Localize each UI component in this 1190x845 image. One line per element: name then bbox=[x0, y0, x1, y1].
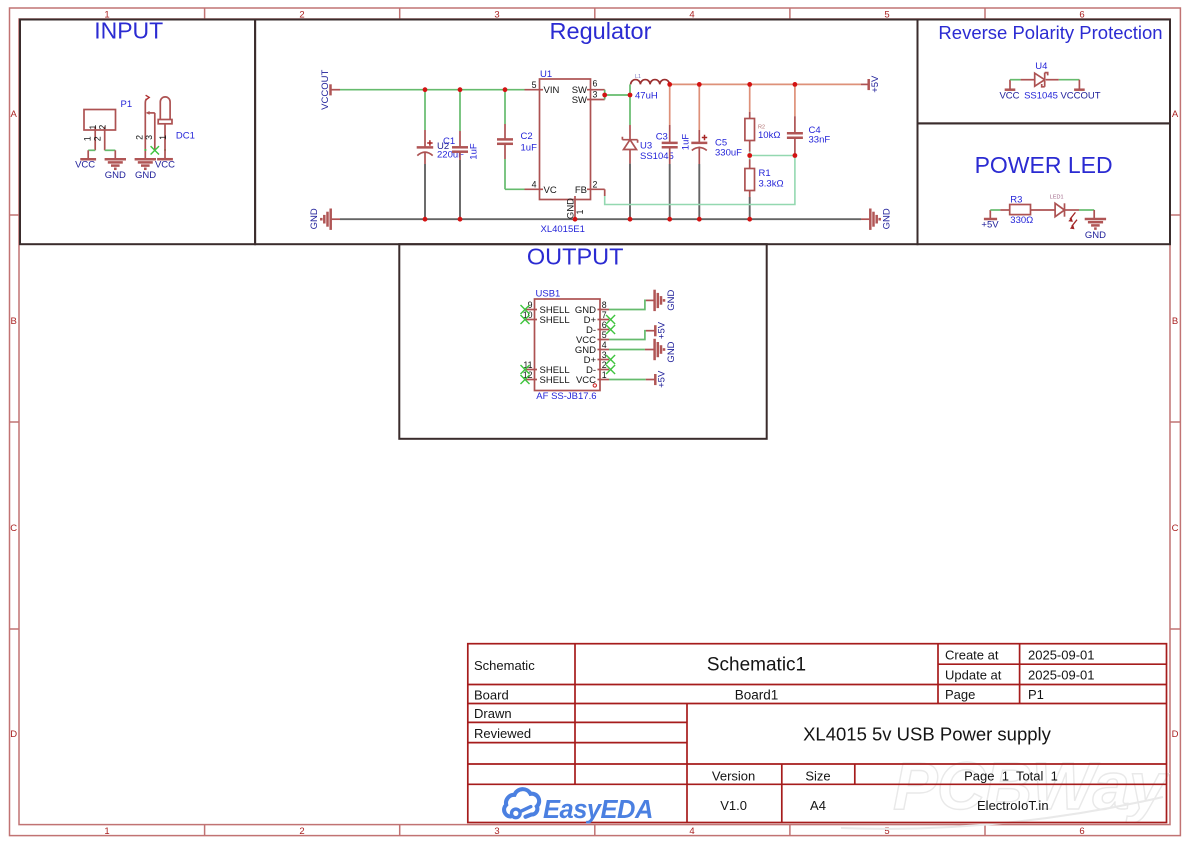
svg-text:POWER LED: POWER LED bbox=[975, 152, 1113, 178]
svg-text:R3: R3 bbox=[1010, 194, 1022, 205]
USB1 pin 3 D+ bbox=[584, 350, 609, 366]
USB1 pin 6 D- bbox=[586, 320, 609, 336]
resistor R3 330 bbox=[1010, 194, 1034, 226]
diode U3 SS1045 bbox=[622, 74, 673, 219]
svg-text:VCCOUT: VCCOUT bbox=[1060, 91, 1100, 102]
svg-text:4: 4 bbox=[532, 180, 537, 190]
svg-text:1: 1 bbox=[602, 370, 607, 380]
svg-text:1: 1 bbox=[88, 125, 98, 130]
svg-text:47uH: 47uH bbox=[635, 90, 658, 101]
svg-text:VIN: VIN bbox=[544, 85, 560, 96]
wire pin5 to +5V bbox=[609, 331, 655, 340]
svg-text:GND: GND bbox=[309, 208, 320, 229]
wire pin1 to +5V bbox=[609, 379, 655, 381]
svg-text:GND: GND bbox=[666, 290, 677, 311]
wire R3 to LED bbox=[1031, 209, 1056, 211]
port VCC left bbox=[999, 80, 1019, 102]
wire P1 pin1 to VCC bbox=[88, 149, 95, 151]
svg-text:INPUT: INPUT bbox=[94, 18, 163, 44]
svg-text:1uF: 1uF bbox=[468, 143, 479, 160]
capacitor C1 220uF bbox=[417, 90, 464, 220]
port +5V at pin1 bbox=[655, 370, 667, 388]
svg-text:C3: C3 bbox=[656, 132, 668, 143]
svg-text:A: A bbox=[1172, 109, 1179, 120]
svg-text:Page 1 Total 1: Page 1 Total 1 bbox=[964, 769, 1058, 784]
wire GND rail bbox=[340, 218, 861, 220]
svg-text:1: 1 bbox=[82, 136, 92, 141]
svg-text:Schematic: Schematic bbox=[474, 658, 535, 673]
POWER LED section box bbox=[918, 123, 1171, 244]
junction C1 top bbox=[423, 87, 428, 92]
svg-text:OUTPUT: OUTPUT bbox=[527, 244, 624, 270]
svg-text:GND: GND bbox=[566, 198, 577, 219]
svg-text:SHELL: SHELL bbox=[540, 375, 570, 386]
svg-text:P1: P1 bbox=[1028, 687, 1044, 702]
P1 pin 2 bbox=[92, 125, 107, 151]
svg-text:U1: U1 bbox=[540, 69, 552, 80]
svg-text:5: 5 bbox=[532, 80, 537, 90]
svg-text:GND: GND bbox=[882, 208, 893, 229]
svg-text:B: B bbox=[11, 316, 17, 327]
junction C3 gnd bbox=[667, 217, 672, 222]
svg-text:SS1045: SS1045 bbox=[1024, 91, 1058, 102]
svg-text:Create at: Create at bbox=[945, 648, 999, 663]
junction FB node C4 bbox=[793, 153, 798, 158]
svg-text:Update at: Update at bbox=[945, 668, 1002, 683]
svg-text:C: C bbox=[1172, 523, 1179, 534]
svg-text:GND: GND bbox=[666, 341, 677, 362]
port +5V right bbox=[861, 75, 881, 93]
connector P1 bbox=[84, 99, 132, 130]
USB1 pin 5 VCC bbox=[576, 330, 609, 346]
svg-text:C: C bbox=[10, 523, 17, 534]
svg-text:+5V: +5V bbox=[657, 321, 668, 339]
svg-text:SHELL: SHELL bbox=[540, 315, 570, 326]
svg-text:33nF: 33nF bbox=[809, 135, 831, 146]
svg-text:9: 9 bbox=[528, 300, 533, 310]
svg-text:3: 3 bbox=[593, 90, 598, 100]
svg-text:Regulator: Regulator bbox=[550, 18, 652, 44]
junction C2 top bbox=[503, 87, 508, 92]
VCC port under DC1 pin1 bbox=[155, 159, 175, 170]
junction C1 gnd bbox=[423, 217, 428, 222]
svg-text:B: B bbox=[1172, 316, 1178, 327]
svg-text:LED1: LED1 bbox=[1050, 195, 1064, 201]
LED LED1 bbox=[1050, 195, 1077, 230]
svg-text:+5V: +5V bbox=[981, 220, 999, 231]
svg-text:2025-09-01: 2025-09-01 bbox=[1028, 648, 1095, 663]
svg-text:A: A bbox=[11, 109, 18, 120]
wire VCCOUT rail bbox=[340, 89, 525, 91]
USB1 pin 11 SHELL bbox=[523, 360, 569, 376]
junction R2 top bbox=[747, 82, 752, 87]
ground GND under P1 bbox=[105, 150, 126, 181]
svg-text:Board1: Board1 bbox=[735, 688, 779, 703]
junction R1 gnd bbox=[747, 217, 752, 222]
column ticks top/bottom bbox=[205, 8, 985, 836]
P1 pin 1 bbox=[82, 125, 98, 151]
svg-text:FB: FB bbox=[575, 185, 587, 196]
svg-text:VCC: VCC bbox=[999, 91, 1019, 102]
capacitor C2 1uF bbox=[497, 90, 537, 190]
port +5V at pin5 bbox=[655, 321, 667, 339]
no-connect X marks USB right bbox=[606, 315, 615, 374]
svg-text:2: 2 bbox=[98, 125, 108, 130]
svg-text:3: 3 bbox=[494, 826, 499, 837]
svg-text:R1: R1 bbox=[759, 168, 771, 179]
capacitor C4 33nF bbox=[787, 84, 830, 155]
svg-text:L1: L1 bbox=[635, 74, 641, 80]
DC jack DC1 bbox=[135, 95, 195, 159]
USB1 pin 2 D- bbox=[586, 360, 609, 376]
wire pin4 to GND bbox=[609, 349, 654, 351]
svg-text:1: 1 bbox=[158, 135, 168, 140]
junction cap 1uF gnd bbox=[458, 217, 463, 222]
PCBWay watermark bbox=[841, 749, 1170, 829]
svg-text:3: 3 bbox=[144, 135, 154, 140]
VCC port under P1 bbox=[75, 150, 96, 170]
svg-text:U4: U4 bbox=[1035, 61, 1047, 72]
OUTPUT section box bbox=[399, 244, 766, 439]
svg-text:VCC: VCC bbox=[155, 160, 175, 171]
ground GND left bbox=[309, 208, 340, 230]
capacitor C3 1uF bbox=[656, 84, 692, 219]
svg-text:6: 6 bbox=[602, 320, 607, 330]
svg-text:Schematic1: Schematic1 bbox=[707, 655, 806, 676]
svg-text:6: 6 bbox=[593, 79, 598, 89]
capacitor C5 330uF bbox=[691, 84, 742, 219]
svg-text:1: 1 bbox=[104, 826, 109, 837]
wire +5V rail bbox=[670, 83, 862, 85]
svg-text:VCC: VCC bbox=[75, 160, 95, 171]
svg-text:XL4015 5v USB Power supply: XL4015 5v USB Power supply bbox=[803, 724, 1052, 745]
svg-text:GND: GND bbox=[105, 170, 126, 181]
USB1 pin 10 SHELL bbox=[523, 310, 570, 326]
svg-text:Reverse Polarity Protection: Reverse Polarity Protection bbox=[938, 22, 1162, 43]
row letters bbox=[10, 109, 1179, 740]
svg-text:1uF: 1uF bbox=[680, 134, 691, 151]
svg-text:+5V: +5V bbox=[657, 370, 668, 388]
Reverse Polarity Protection section box bbox=[918, 20, 1171, 124]
title block table lines bbox=[468, 644, 1167, 823]
svg-text:C2: C2 bbox=[521, 131, 533, 142]
svg-text:5: 5 bbox=[884, 826, 889, 837]
IC U1 XL4015E1 bbox=[525, 69, 605, 235]
diode U4 SS1045 bbox=[1024, 61, 1058, 102]
junction C3 top bbox=[667, 82, 672, 87]
no-connect X on DC1 pin 3 bbox=[151, 146, 159, 154]
Regulator section box bbox=[255, 18, 917, 244]
svg-text:EasyEDA: EasyEDA bbox=[543, 796, 653, 824]
junction C5 top bbox=[697, 82, 702, 87]
USB1 pin 8 GND bbox=[575, 300, 609, 316]
svg-text:P1: P1 bbox=[121, 99, 133, 110]
USB1 pin 9 SHELL bbox=[526, 300, 570, 316]
svg-text:+5V: +5V bbox=[870, 75, 881, 93]
ground GND under DC1 pin2 bbox=[135, 159, 157, 181]
svg-text:10kΩ: 10kΩ bbox=[758, 130, 780, 141]
svg-text:U3: U3 bbox=[640, 141, 652, 152]
ground GND right bbox=[861, 208, 893, 230]
USB1 pin 4 GND bbox=[575, 340, 609, 356]
svg-text:2: 2 bbox=[92, 136, 102, 141]
junction U3 gnd bbox=[628, 217, 633, 222]
junction cap 1uF top bbox=[458, 87, 463, 92]
svg-text:3.3kΩ: 3.3kΩ bbox=[759, 179, 784, 190]
svg-text:DC1: DC1 bbox=[176, 131, 195, 142]
USB connector USB1 bbox=[535, 289, 601, 402]
port VCCOUT right bbox=[1060, 80, 1100, 102]
wire C2 to VC bbox=[505, 188, 525, 190]
svg-text:D: D bbox=[1172, 729, 1179, 740]
svg-text:Board: Board bbox=[474, 688, 509, 703]
svg-text:Page: Page bbox=[945, 687, 975, 702]
svg-text:SW: SW bbox=[572, 95, 587, 106]
svg-text:XL4015E1: XL4015E1 bbox=[541, 224, 585, 235]
inductor L1 47uH bbox=[631, 74, 670, 101]
svg-text:V1.0: V1.0 bbox=[720, 798, 747, 813]
svg-text:Version: Version bbox=[712, 769, 755, 784]
wire FB net bbox=[605, 156, 795, 205]
row ticks left/right bbox=[10, 215, 1181, 629]
svg-text:A4: A4 bbox=[810, 798, 826, 813]
EasyEDA logo bbox=[504, 789, 653, 824]
svg-text:2: 2 bbox=[135, 135, 145, 140]
wire VCC to diode bbox=[1010, 79, 1035, 81]
svg-text:1uF: 1uF bbox=[521, 143, 538, 154]
INPUT section box bbox=[20, 18, 255, 245]
wire pin8 to GND bbox=[609, 300, 654, 309]
resistor R1 3.3k bbox=[745, 156, 784, 220]
svg-text:6: 6 bbox=[1079, 826, 1084, 837]
port +5V bbox=[981, 210, 999, 231]
svg-text:8: 8 bbox=[602, 300, 607, 310]
USB1 pin 7 D+ bbox=[584, 310, 609, 326]
wire SW node bbox=[605, 84, 630, 125]
junction U1 gnd bbox=[573, 217, 578, 222]
junction C5 gnd bbox=[697, 217, 702, 222]
ground GND at pin8 bbox=[655, 290, 677, 312]
svg-text:2: 2 bbox=[593, 180, 598, 190]
junction FB node R2-R1 bbox=[747, 153, 752, 158]
port VCCOUT bbox=[320, 70, 340, 110]
title block texts bbox=[474, 648, 1095, 814]
svg-text:2025-09-01: 2025-09-01 bbox=[1028, 668, 1095, 683]
USB1 pin 1 VCC bbox=[576, 370, 609, 387]
svg-text:Reviewed: Reviewed bbox=[474, 726, 531, 741]
svg-text:1: 1 bbox=[575, 209, 585, 214]
svg-text:SS1045: SS1045 bbox=[640, 151, 674, 162]
svg-text:Drawn: Drawn bbox=[474, 706, 512, 721]
svg-text:7: 7 bbox=[602, 310, 607, 320]
junction SW pins bbox=[602, 93, 607, 98]
svg-text:2: 2 bbox=[299, 826, 304, 837]
svg-text:4: 4 bbox=[689, 826, 694, 837]
svg-text:4: 4 bbox=[602, 340, 607, 350]
junction SW node at L1 bbox=[628, 93, 633, 98]
wire +5V to R3 bbox=[990, 209, 1009, 211]
ground GND power led bbox=[1085, 219, 1106, 241]
svg-text:5: 5 bbox=[602, 330, 607, 340]
svg-text:ElectroIoT.in: ElectroIoT.in bbox=[977, 798, 1049, 813]
svg-text:GND: GND bbox=[135, 170, 156, 181]
svg-text:GND: GND bbox=[1085, 230, 1106, 241]
ground GND at pin4 bbox=[655, 339, 677, 363]
wire LED to GND bbox=[1065, 210, 1095, 219]
no-connect X marks USB left bbox=[521, 305, 530, 384]
wire diode to VCCOUT bbox=[1046, 79, 1079, 81]
svg-text:330uF: 330uF bbox=[715, 148, 742, 159]
svg-text:330Ω: 330Ω bbox=[1010, 215, 1033, 226]
svg-text:D: D bbox=[10, 729, 17, 740]
capacitor 1uF (C near C1) bbox=[452, 90, 479, 220]
svg-text:USB1: USB1 bbox=[536, 289, 561, 300]
svg-text:AF SS-JB17.6: AF SS-JB17.6 bbox=[536, 391, 596, 402]
svg-text:Size: Size bbox=[805, 769, 830, 784]
USB1 pin 12 SHELL bbox=[523, 370, 570, 386]
svg-text:VC: VC bbox=[544, 185, 557, 196]
svg-text:2: 2 bbox=[602, 360, 607, 370]
resistor R2 10k bbox=[745, 84, 781, 155]
junction C4 top bbox=[793, 82, 798, 87]
svg-text:3: 3 bbox=[602, 350, 607, 360]
wire P1 pin2 to GND bbox=[105, 149, 116, 151]
